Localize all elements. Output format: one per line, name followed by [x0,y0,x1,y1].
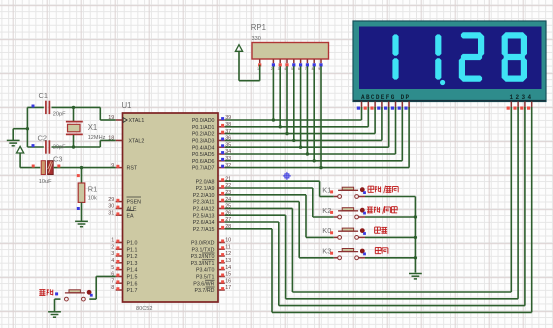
svg-text:4: 4 [284,67,286,71]
RP1 pins 2-9 stubs and state squares [271,59,323,71]
svg-text:P3.5/T1: P3.5/T1 [196,275,215,281]
svg-text:10uF: 10uF [39,179,52,185]
svg-text:13: 13 [225,258,231,264]
svg-text:P0.7/AD7: P0.7/AD7 [192,166,215,172]
svg-text:2: 2 [111,244,114,250]
svg-text:P3.1/TXD: P3.1/TXD [192,247,215,253]
wire P0.1 (pin 38) to RP1 and display segment [225,66,368,128]
svg-text:P0.3/AD3: P0.3/AD3 [192,139,215,145]
svg-text:P3.0/RXD: P3.0/RXD [191,241,215,247]
svg-text:K0: K0 [322,226,331,235]
label 复位/间隔 (reset/interval) for K2 [367,206,397,214]
svg-text:P3.3/INT1: P3.3/INT1 [191,261,215,267]
svg-text:P0.2/AD2: P0.2/AD2 [192,132,215,138]
label C1 [39,91,48,100]
value 20pF for C1 [53,112,66,118]
svg-text:14: 14 [225,265,231,271]
node ground branch junction [26,127,29,130]
wire P0.3 (pin 36) to RP1 and display segment [225,66,382,142]
wire C1 node to XTAL1 [74,107,116,120]
U1 pins 19/18 XTAL stubs [108,115,122,141]
push button K1 [322,185,366,198]
svg-text:P0.5/AD5: P0.5/AD5 [192,152,215,158]
svg-text:ALE: ALE [127,207,137,213]
wire P2.7 (pin 28) to display digit 4 [225,107,532,312]
label 80C52 [136,306,152,312]
svg-text:5: 5 [291,67,293,71]
wire P0.0 (pin 39) to RP1 and display segment [225,66,362,122]
U1 pins 10-17 P3 stubs [218,238,231,292]
node RST/R1 junction [80,166,83,169]
resistor R1 [77,168,85,221]
wire C1-C2 left vertical [26,107,28,147]
svg-text:80C52: 80C52 [136,306,152,312]
svg-text:ABCDEFG DP: ABCDEFG DP [361,94,411,101]
capacitor C1 [27,101,73,114]
svg-text:U1: U1 [122,101,132,110]
svg-text:P1.4: P1.4 [127,268,138,274]
svg-text:P2.4/A12: P2.4/A12 [193,207,215,213]
svg-text:P2.0/A8: P2.0/A8 [196,179,215,185]
label C2 [38,134,47,143]
wire P2.1 (pin 22) to button K2 [225,188,334,217]
wire P2.3 (pin 24) to button K3 [225,202,334,258]
svg-text:RP1: RP1 [251,23,266,32]
svg-text:5: 5 [111,265,114,271]
wire P2.4 (pin 25) to display digit 1 [225,107,512,292]
svg-text:1: 1 [111,238,114,244]
svg-text:K3: K3 [322,247,331,256]
ground for C1/C2 [7,140,20,145]
label R1 [88,185,97,194]
wire P2.0 (pin 21) to button K1 [225,181,334,196]
label 启动/暂停 (start/pause) for K1 [368,186,398,194]
push button K0 [322,226,366,239]
display digit 3 showing '2' [459,32,484,81]
svg-text:15: 15 [225,272,231,278]
svg-text:P3.4/T0: P3.4/T0 [196,268,215,274]
svg-text:XTAL1: XTAL1 [129,118,145,124]
svg-text:P2.6/A14: P2.6/A14 [193,220,215,226]
svg-text:6: 6 [298,67,300,71]
svg-text:8: 8 [312,67,314,71]
wire K1 right terminal to common ground rail [365,196,415,198]
wire 清除 right to P1.5 [89,276,115,299]
svg-text:EA: EA [127,213,135,219]
svg-text:P3.7/RD: P3.7/RD [194,288,214,294]
svg-text:9: 9 [318,67,320,71]
wire K3 right terminal to common ground rail [365,257,415,259]
capacitor C2 [27,140,73,153]
label RP1 [251,23,266,32]
wire buttons common rail [414,197,417,273]
svg-text:4: 4 [111,258,114,264]
U1 pin 9 RST stub [111,163,122,169]
label C3 [53,155,62,164]
wire P0.4 (pin 35) to RP1 and display segment [225,66,389,149]
svg-text:30: 30 [108,204,114,210]
svg-text:C3: C3 [53,155,62,164]
node C1/XTAL1 junction [72,106,75,109]
svg-text:1: 1 [257,67,259,71]
value 330 for RP1 [252,36,261,42]
push button 清除 (clear) [55,290,93,301]
svg-text:P1.6: P1.6 [127,281,138,287]
origin marker [283,172,291,180]
svg-text:P3.2/INT0: P3.2/INT0 [191,254,215,260]
display digit 4 showing '8' [502,32,527,81]
wire P2.5 (pin 26) to display digit 2 [225,107,518,299]
svg-text:7: 7 [111,278,114,284]
svg-text:P2.7/A15: P2.7/A15 [193,227,215,233]
label X1 [88,123,98,132]
crystal X1 [66,107,83,147]
svg-text:3: 3 [278,67,280,71]
svg-text:17: 17 [225,285,231,291]
ground for buttons [409,274,422,279]
display segment pins A-DP with state squares [357,102,409,110]
svg-text:20pF: 20pF [53,112,66,118]
svg-text:3: 3 [111,251,114,257]
U1 pins 39-32 P0 stubs [218,115,231,169]
svg-text:P2.5/A13: P2.5/A13 [193,213,215,219]
svg-text:K2: K2 [322,206,331,215]
value 12MHz for X1 [88,135,106,141]
svg-text:P1.7: P1.7 [127,288,138,294]
U1 right pin names [191,118,215,294]
svg-text:P2.2/A10: P2.2/A10 [193,193,215,199]
svg-text:P1.3: P1.3 [127,261,138,267]
svg-text:P3.6/WR: P3.6/WR [193,281,214,287]
wire to left ground [13,129,27,140]
label U1 [122,101,132,110]
capacitor C3 (electrolytic) [20,161,116,175]
svg-text:10: 10 [225,238,231,244]
svg-text:20pF: 20pF [53,145,66,151]
svg-text:P0.4/AD4: P0.4/AD4 [192,145,215,151]
svg-text:P1.1: P1.1 [127,247,138,253]
U1 left pin names [127,118,145,294]
svg-text:10k: 10k [88,196,97,202]
display digit 2 showing '1' with decimal point [435,34,445,85]
display digit labels 1234 [510,94,534,101]
wire P2.6 (pin 27) to display digit 3 [225,107,525,306]
display digit-select pins 1-4 with state squares [507,102,532,110]
push button K3 [322,247,366,260]
svg-text:7: 7 [305,67,307,71]
svg-text:330: 330 [252,36,261,42]
svg-text:16: 16 [225,278,231,284]
svg-text:C2: C2 [38,134,47,143]
svg-text:P1.0: P1.0 [127,241,138,247]
svg-text:P1.2: P1.2 [127,254,138,260]
value 20pF for C2 [53,145,66,151]
svg-text:C1: C1 [39,91,48,100]
value 10uF for C3 [39,179,52,185]
svg-text:P1.5: P1.5 [127,275,138,281]
svg-text:P0.6/AD6: P0.6/AD6 [192,159,215,165]
svg-text:11: 11 [225,244,231,250]
wire 清除 left to ground [55,299,61,311]
svg-text:2: 2 [271,67,273,71]
svg-text:XTAL2: XTAL2 [129,139,145,145]
U1 pins 1-8 P1 stubs [111,238,122,292]
display digit 1 showing '1' [392,34,398,79]
wire C2 node to XTAL2 [74,140,116,147]
value 10k for R1 [88,196,97,202]
svg-text:8: 8 [111,285,114,291]
svg-text:P2.1/A9: P2.1/A9 [196,186,215,192]
wire P0.5 (pin 34) to RP1 and display segment [225,66,396,156]
7-segment display module (4 digit, green frame) [353,21,546,102]
resistor pack RP1 body [252,43,329,60]
wire VCC to RP1 pin 1 [239,65,260,81]
svg-text:31: 31 [108,210,114,216]
wire P0.6 (pin 33) to RP1 and display segment [225,66,402,162]
svg-text:PSEN: PSEN [127,200,142,206]
wire K2 right terminal to common ground rail [365,216,415,218]
svg-text:1234: 1234 [510,94,534,101]
label 查看 (view) for K3 [375,247,388,253]
wire K0 right terminal to common ground rail [365,236,415,238]
U1 pins 29-31 PSEN/ALE/EA stubs [108,197,122,217]
ground for R1 [75,221,88,226]
svg-text:12: 12 [225,251,231,257]
microcontroller U1 80C52 body [123,113,219,302]
svg-text:X1: X1 [88,123,98,132]
node C2/XTAL2 junction [72,145,75,148]
svg-text:P0.1/AD1: P0.1/AD1 [192,125,215,131]
power VCC arrow for reset circuit [17,146,24,167]
svg-text:29: 29 [108,197,114,203]
RP1 pin 1 stub and state square [257,59,261,71]
power VCC arrow for RP1 [235,45,242,81]
push button K2 [322,206,366,219]
svg-text:K1: K1 [322,185,331,194]
svg-text:P2.3/A11: P2.3/A11 [193,200,214,206]
wire P0.2 (pin 37) to RP1 and display segment [225,66,375,135]
XTAL1 clock input marker [123,118,127,123]
label 模式 (mode) for K0 [375,227,388,233]
svg-text:R1: R1 [88,185,97,194]
ground for 清除 button [48,312,61,317]
label 清除 (clear) [39,289,53,295]
svg-text:RST: RST [127,166,138,172]
wire P0.7 (pin 32) to RP1 and display segment [225,66,409,169]
U1 pins 21-28 P2 stubs [218,176,231,230]
svg-text:P0.0/AD0: P0.0/AD0 [192,118,215,124]
display segment labels ABCDEFG DP [361,94,411,101]
wire P2.2 (pin 23) to button K0 [225,195,334,238]
